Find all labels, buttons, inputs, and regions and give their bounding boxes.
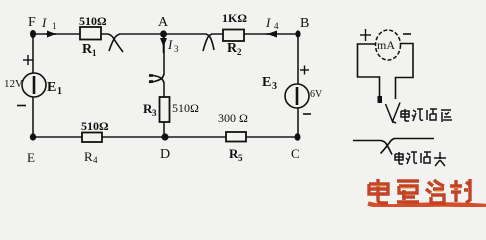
svg-text:3: 3	[152, 108, 157, 118]
resistor R2 (1K ohm)	[223, 30, 244, 42]
wire R5 to node C	[246, 136, 298, 138]
wire node A down to plug X3	[163, 34, 165, 74]
svg-text:E: E	[262, 75, 271, 90]
meter plus sign	[360, 29, 371, 41]
arrow V pointing to plug	[386, 103, 401, 124]
svg-text:3: 3	[272, 81, 277, 92]
wire R3 to node D	[163, 122, 165, 137]
battery E3 circle	[285, 84, 309, 108]
resistor R3 (510 ohm, vertical)	[160, 97, 170, 122]
wire node B down to battery E3 plus terminal	[297, 34, 299, 84]
plug socket X2 on top wire	[203, 34, 214, 51]
wire battery E3 minus terminal down to node C	[297, 108, 299, 137]
svg-text:12V: 12V	[4, 78, 23, 90]
wire R1 to plug X1	[101, 33, 108, 35]
svg-text:1: 1	[92, 48, 97, 58]
battery E3 plus sign	[300, 66, 309, 75]
meter right lead wire	[396, 44, 414, 100]
node C	[295, 133, 301, 141]
current arrow I3	[160, 37, 167, 53]
svg-text:1: 1	[57, 86, 62, 97]
battery E3 minus sign	[303, 113, 311, 115]
svg-text:510Ω: 510Ω	[172, 101, 199, 115]
svg-text:I: I	[167, 37, 173, 52]
resistor R1 (510 ohm)	[80, 27, 101, 40]
wire plug X1 to node A	[120, 33, 163, 35]
wire battery E1 minus terminal down to node E	[32, 97, 34, 137]
svg-text:2: 2	[237, 47, 242, 57]
left plug prong tip	[378, 96, 383, 103]
current arrow I1	[46, 31, 56, 38]
svg-text:mA: mA	[377, 38, 395, 52]
svg-text:3: 3	[174, 44, 179, 54]
svg-text:4: 4	[93, 155, 98, 165]
red watermark text (stylized)	[369, 179, 470, 203]
milliammeter circle (dashed)	[376, 30, 401, 60]
wire F to R1 (top left)	[33, 33, 80, 35]
svg-text:6V: 6V	[310, 89, 323, 100]
wire plug X2 to R2	[212, 33, 223, 35]
legend plug symbol line left	[353, 141, 392, 155]
meter left lead wire	[358, 44, 380, 98]
wire node E to R4	[33, 136, 82, 138]
wire R4 to node D	[102, 136, 164, 138]
svg-text:R: R	[84, 149, 93, 164]
node F	[30, 30, 36, 38]
svg-text:B: B	[300, 16, 309, 31]
battery E3 cell bar	[296, 87, 299, 105]
red watermark underline	[368, 204, 486, 207]
svg-text:1: 1	[52, 21, 57, 31]
svg-text:E: E	[47, 80, 56, 95]
svg-text:5: 5	[238, 153, 243, 163]
node B	[295, 30, 300, 37]
svg-text:A: A	[158, 15, 169, 30]
current arrow I4	[266, 31, 277, 38]
plug socket X3 on middle branch	[149, 74, 164, 83]
svg-text:510Ω: 510Ω	[81, 119, 109, 133]
legend plug symbol line right	[381, 139, 435, 154]
svg-text:1KΩ: 1KΩ	[222, 11, 247, 25]
svg-text:I: I	[41, 15, 47, 30]
wire plug X3 down to R3	[163, 83, 165, 97]
svg-text:F: F	[28, 15, 36, 30]
svg-text:D: D	[160, 147, 170, 162]
text current plug (dian liu cha tou)	[395, 152, 446, 166]
svg-text:E: E	[27, 150, 35, 165]
wire R2 to node B	[244, 33, 298, 35]
wire node D to R5	[164, 136, 226, 138]
resistor R4 (510 ohm)	[82, 133, 102, 143]
plug socket X1 on top wire	[108, 34, 123, 52]
svg-text:4: 4	[274, 21, 279, 31]
svg-text:C: C	[291, 146, 300, 161]
battery E1 circle	[22, 73, 46, 97]
node E	[30, 133, 36, 140]
node D	[161, 133, 168, 140]
battery E1 plus sign	[23, 55, 33, 65]
wire node A to plug X2	[163, 33, 206, 35]
svg-text:300 Ω: 300 Ω	[218, 111, 248, 125]
resistor R5 (300 ohm)	[226, 132, 246, 142]
battery E1 minus sign	[17, 105, 26, 107]
battery E1 cell bar	[33, 76, 36, 94]
svg-text:I: I	[265, 15, 271, 30]
wire F down to battery E1 plus terminal	[32, 34, 34, 73]
text current socket (dian liu cha zuo)	[401, 109, 452, 122]
svg-text:510Ω: 510Ω	[79, 14, 107, 28]
node A	[160, 30, 167, 37]
meter minus sign	[403, 33, 411, 35]
